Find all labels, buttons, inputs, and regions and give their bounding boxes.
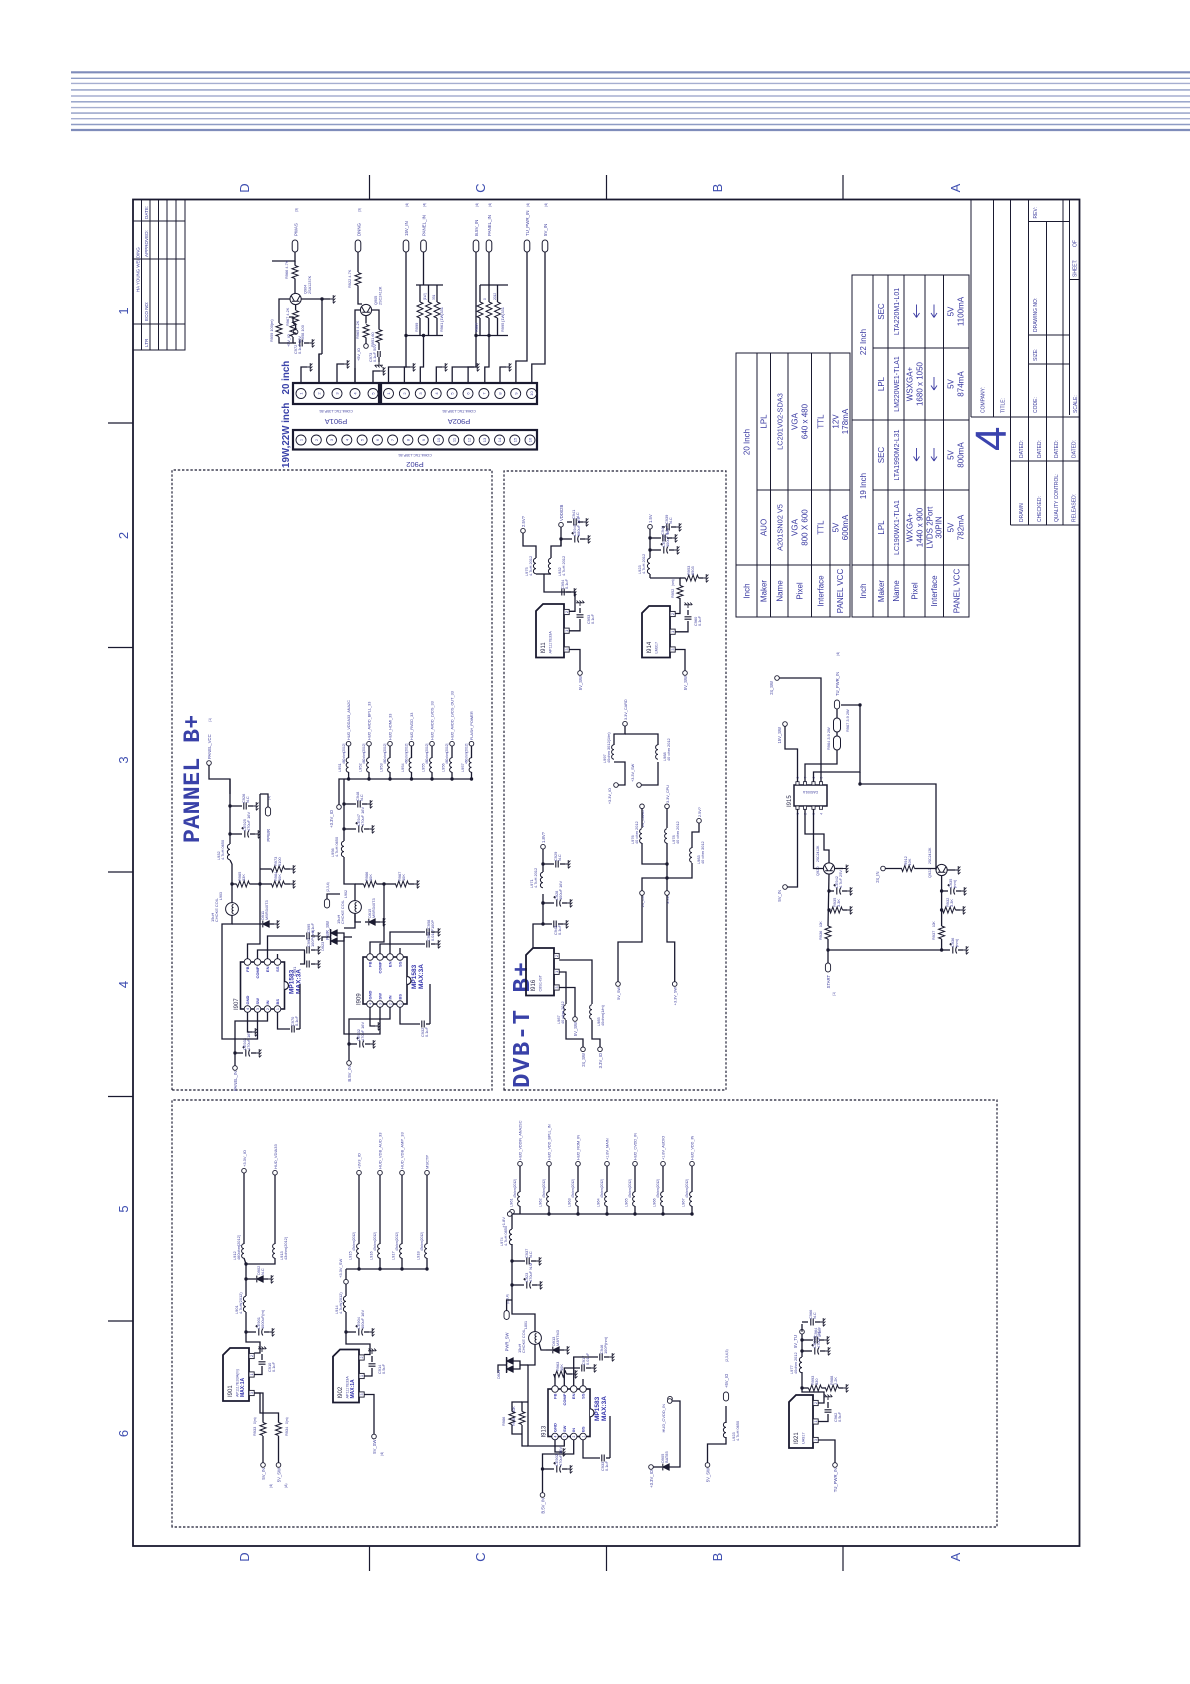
junction	[430, 777, 433, 780]
svg-text:D: D	[237, 1552, 252, 1561]
wire	[254, 1366, 262, 1375]
net tag 15V_SW	[783, 722, 788, 727]
wire	[349, 1043, 357, 1045]
junction	[541, 1467, 544, 1470]
junction	[510, 1283, 513, 1286]
svg-text:AUO: AUO	[760, 519, 769, 536]
svg-text:R937: R937	[931, 931, 936, 940]
svg-text:R936: R936	[818, 931, 823, 940]
junction	[648, 548, 651, 551]
svg-text:2.2K: 2.2K	[833, 1377, 838, 1385]
ground	[315, 946, 320, 954]
svg-text:L917: L917	[391, 1251, 396, 1260]
net tag +3.3V_IO ladder feed	[614, 783, 619, 788]
svg-text:3.3V_CPU: 3.3V_CPU	[666, 785, 670, 803]
svg-text:(4): (4)	[836, 652, 840, 656]
svg-text:LC201V02-SDA3: LC201V02-SDA3	[776, 393, 785, 450]
wire	[246, 1312, 260, 1353]
svg-text:EN: EN	[388, 961, 393, 967]
wire	[579, 608, 581, 613]
svg-text:R987 3.9 2W: R987 3.9 2W	[845, 709, 850, 732]
svg-text:2: 2	[671, 613, 675, 615]
wire	[497, 318, 499, 336]
ground	[571, 588, 576, 596]
inductor L975 4.7uH	[533, 558, 536, 574]
wire	[296, 1028, 300, 1030]
wire	[578, 521, 583, 523]
wire	[420, 336, 423, 384]
svg-text:10K: 10K	[401, 874, 406, 881]
wire	[634, 1206, 636, 1214]
wire	[311, 935, 315, 937]
wire	[318, 354, 320, 383]
dual diode D921	[507, 1366, 513, 1372]
wire	[827, 1402, 829, 1408]
junction	[378, 1267, 381, 1270]
wire	[338, 933, 345, 941]
junction	[474, 334, 477, 337]
svg-text:VDD02B: VDD02B	[559, 505, 564, 521]
svg-text:460ohm[2012]: 460ohm[2012]	[383, 744, 387, 764]
svg-text:5V_SW: 5V_SW	[578, 676, 583, 690]
ground	[591, 1364, 596, 1372]
svg-text:4.7uH 0650: 4.7uH 0650	[220, 839, 225, 860]
junction	[648, 536, 651, 539]
svg-text:IN: IN	[571, 1428, 576, 1432]
wire	[551, 527, 561, 558]
wire	[251, 1052, 256, 1054]
junction	[367, 777, 370, 780]
wire	[606, 1166, 608, 1192]
svg-text:QUALITY CONTROL:: QUALITY CONTROL:	[1054, 473, 1060, 522]
svg-text:0.01uF: 0.01uF	[430, 928, 435, 941]
svg-text:3.3V_IO: 3.3V_IO	[598, 1052, 603, 1068]
wire	[235, 1052, 243, 1054]
net tag 5V_SW for I914	[683, 671, 688, 676]
wire	[270, 923, 275, 925]
svg-text:SW: SW	[255, 998, 260, 1005]
wire	[423, 252, 425, 285]
net tag START	[825, 963, 830, 972]
svg-text:640 x 480: 640 x 480	[801, 403, 810, 439]
ground	[576, 601, 584, 606]
wire	[364, 828, 369, 830]
wire	[346, 1312, 370, 1355]
svg-text:3: 3	[565, 649, 569, 651]
wire	[245, 1264, 247, 1296]
wire	[828, 939, 942, 950]
svg-text:460ohm[2012]: 460ohm[2012]	[236, 1235, 241, 1260]
wire	[389, 746, 391, 758]
resistor R966 4.7K	[292, 266, 298, 279]
wire	[662, 526, 665, 528]
wire	[262, 1436, 264, 1463]
svg-text:1: 1	[276, 1008, 280, 1010]
wire	[346, 1268, 427, 1270]
svg-text:TTL: TTL	[817, 414, 826, 429]
svg-text:L801: L801	[524, 1321, 528, 1329]
wire	[399, 948, 401, 954]
wire	[384, 883, 396, 885]
wire	[675, 598, 680, 614]
resistor R985 33K	[237, 881, 250, 887]
wire	[500, 367, 506, 383]
svg-text:6: 6	[116, 1430, 131, 1437]
svg-text:L963: L963	[567, 1198, 572, 1207]
svg-text:100uF 16V: 100uF 16V	[360, 1310, 365, 1329]
wire	[801, 1334, 803, 1357]
net tag TU_PWR_IN out	[834, 700, 839, 709]
wire	[592, 1020, 600, 1047]
net tag HUD_VDDIN_ANA2SC	[518, 1161, 523, 1166]
wire	[401, 1258, 403, 1269]
svg-text:5V_IN: 5V_IN	[543, 224, 548, 236]
wire	[277, 954, 279, 959]
svg-text:(4): (4)	[269, 1484, 273, 1488]
wire	[560, 863, 565, 865]
svg-text:15V_IN: 15V_IN	[404, 221, 409, 236]
svg-text:+5V_IO: +5V_IO	[724, 1373, 729, 1388]
svg-text:COM4-TAC-L35P-B1: COM4-TAC-L35P-B1	[319, 409, 353, 413]
wire	[260, 883, 272, 885]
svg-text:4: 4	[967, 427, 1016, 451]
wire	[348, 772, 350, 779]
svg-text:(4): (4)	[526, 203, 530, 207]
svg-text:460ohm[2012]: 460ohm[2012]	[425, 744, 429, 764]
wire	[436, 285, 438, 302]
wire	[232, 923, 262, 925]
svg-text:B: B	[710, 184, 725, 193]
wire	[787, 809, 797, 887]
net tag +1.8V	[507, 1212, 512, 1217]
wire	[248, 805, 253, 807]
svg-text:2SA1237K: 2SA1237K	[308, 275, 312, 294]
net tag HUD_CVDD_IN pull	[668, 1396, 673, 1401]
svg-text:SS: SS	[275, 966, 280, 972]
svg-text:N.C: N.C	[260, 1268, 265, 1275]
wire	[278, 1436, 280, 1463]
wire	[311, 949, 315, 951]
wire	[365, 338, 367, 344]
junction	[940, 908, 943, 911]
wire	[650, 578, 680, 586]
ground	[961, 887, 966, 895]
ground	[847, 887, 852, 895]
svg-text:1.5V: 1.5V	[648, 514, 653, 523]
svg-text:0: 0	[483, 298, 487, 300]
svg-text:R984 3.9 2W: R984 3.9 2W	[826, 727, 831, 750]
voltage regulator I916	[526, 948, 554, 996]
junction	[800, 1338, 803, 1341]
svg-text:N.C: N.C	[812, 1312, 817, 1319]
svg-text:Maker: Maker	[877, 580, 886, 603]
wire	[368, 746, 370, 758]
wire	[301, 367, 307, 383]
wire	[827, 939, 829, 963]
svg-text:L902: L902	[344, 890, 348, 898]
net tag 5V_SW for L923	[705, 1463, 710, 1468]
junction	[541, 862, 544, 865]
svg-text:10K: 10K	[277, 874, 282, 881]
svg-text:4.7uF 25V: 4.7uF 25V	[838, 870, 843, 888]
svg-text:0.01uF: 0.01uF	[585, 1352, 590, 1365]
svg-text:HUD_AVDD_LVDS_OUT_33: HUD_AVDD_LVDS_OUT_33	[451, 691, 455, 740]
wire	[708, 1437, 727, 1463]
wire	[835, 868, 844, 870]
wire	[614, 726, 625, 745]
wire	[322, 298, 330, 300]
wire	[675, 650, 685, 671]
svg-text:IN: IN	[265, 1000, 270, 1004]
svg-text:10: 10	[436, 437, 441, 442]
ground	[252, 1028, 257, 1036]
wire	[583, 1440, 600, 1458]
svg-text:13: 13	[482, 437, 487, 442]
wire	[641, 809, 643, 828]
svg-text:40ohm 2012: 40ohm 2012	[793, 1352, 798, 1374]
wire	[814, 809, 824, 868]
wire	[560, 540, 562, 546]
svg-text:8503: 8503	[690, 566, 695, 575]
svg-text:N.C: N.C	[359, 794, 364, 801]
svg-text:40ohm(1/m): 40ohm(1/m)	[600, 1004, 605, 1026]
svg-text:4: 4	[246, 1008, 250, 1010]
resistor R961 331 1W	[434, 302, 440, 318]
inductor L914 4.7uH 2012	[343, 1296, 346, 1312]
svg-text:2SC2412K: 2SC2412K	[928, 847, 932, 864]
junction	[404, 334, 407, 337]
svg-text:5V: 5V	[832, 522, 841, 532]
net tag 24_SW for I915	[775, 676, 780, 681]
svg-text:PANEL VCC: PANEL VCC	[836, 569, 845, 614]
svg-text:19W,22W inch 20 inch: 19W,22W inch 20 inch	[281, 361, 292, 468]
svg-text:LC190WX1-TLA1: LC190WX1-TLA1	[894, 500, 901, 555]
inductor L923b 4.7uH	[647, 558, 650, 574]
svg-text:2: 2	[360, 1357, 364, 1359]
wire	[519, 1206, 521, 1214]
wire	[543, 1468, 555, 1470]
wire	[560, 526, 562, 528]
choke coil L903 15uH	[226, 903, 239, 916]
svg-text:3: 3	[814, 1439, 818, 1441]
wire	[451, 772, 453, 779]
ground	[369, 1328, 374, 1336]
wire	[558, 983, 560, 985]
wire	[667, 895, 675, 981]
svg-text:24_IN: 24_IN	[875, 872, 880, 883]
ground	[274, 920, 279, 928]
ground	[963, 946, 968, 954]
svg-text:UA917: UA917	[802, 1432, 806, 1444]
svg-text:MBR340T3: MBR340T3	[371, 898, 376, 918]
net tag HUD_HDMI_33	[388, 741, 393, 746]
wire	[357, 252, 359, 272]
net tag PPWR	[265, 807, 270, 816]
svg-text:(4): (4)	[544, 203, 548, 207]
svg-text:43ohm(2012): 43ohm(2012)	[571, 1179, 575, 1198]
resistor R986b 10K	[509, 1412, 515, 1425]
wire	[675, 621, 688, 632]
wire	[289, 317, 293, 323]
wire	[264, 1278, 269, 1280]
svg-text:TITLE:: TITLE:	[1001, 398, 1007, 413]
wire	[295, 324, 297, 330]
svg-text:AP1117E33A: AP1117E33A	[549, 631, 553, 654]
svg-text:DATED:: DATED:	[1037, 440, 1043, 458]
svg-text:43ohm(2012): 43ohm(2012)	[685, 1179, 689, 1198]
svg-text:FB: FB	[553, 1393, 558, 1398]
svg-text:0(m): 0(m)	[285, 1417, 289, 1424]
svg-text:5V_SW: 5V_SW	[683, 676, 688, 690]
svg-text:1: 1	[250, 1374, 254, 1376]
svg-text:+3.3V_SW: +3.3V_SW	[631, 763, 635, 782]
svg-text:470uF 16V: 470uF 16V	[558, 1447, 563, 1466]
svg-text:BS: BS	[581, 1426, 586, 1432]
wire	[725, 1406, 727, 1423]
connector P902A	[381, 383, 537, 404]
wire	[822, 1387, 827, 1389]
svg-text:L915: L915	[348, 1251, 353, 1260]
wire	[691, 1166, 693, 1192]
wire	[805, 809, 829, 863]
svg-text:MP1583: MP1583	[411, 964, 418, 989]
ground	[330, 295, 335, 303]
ground	[563, 920, 568, 928]
svg-text:470uF 16V: 470uF 16V	[246, 1031, 251, 1050]
svg-text:L962: L962	[538, 1198, 543, 1207]
wire	[268, 936, 306, 959]
net tag PWR_SW for I913	[504, 1311, 509, 1320]
svg-text:1: 1	[814, 1421, 818, 1423]
wire	[564, 1368, 580, 1386]
svg-text:+3.3V_IO: +3.3V_IO	[329, 809, 334, 828]
ground	[435, 928, 440, 936]
svg-text:470uF 16V: 470uF 16V	[360, 807, 365, 826]
ground	[672, 534, 677, 542]
svg-text:5V_TU: 5V_TU	[793, 1335, 798, 1348]
wire	[546, 1349, 552, 1351]
wire	[512, 1425, 522, 1434]
wire	[532, 1284, 537, 1286]
wire	[389, 772, 391, 779]
wire	[345, 1269, 347, 1280]
wire	[311, 963, 315, 965]
inductor L932b 4.7uH	[548, 558, 551, 574]
net tag 3.3V_CPU	[665, 804, 670, 809]
resistor R951 60	[376, 330, 382, 343]
svg-text:4.7uH 2012: 4.7uH 2012	[641, 554, 646, 574]
wire	[531, 1260, 536, 1262]
ground	[567, 899, 572, 907]
wire	[258, 950, 306, 959]
wire	[231, 864, 233, 903]
svg-text:100P(nm): 100P(nm)	[603, 1336, 608, 1354]
wire	[671, 526, 676, 528]
svg-text:DNNG: DNNG	[357, 222, 362, 236]
svg-text:P901A: P901A	[325, 417, 348, 426]
svg-text:19 Inch: 19 Inch	[859, 473, 868, 499]
wire	[488, 285, 490, 302]
wire	[666, 809, 668, 828]
ground	[537, 1281, 542, 1289]
resistor R936 10K	[825, 926, 831, 939]
junction	[230, 882, 233, 885]
svg-text:3.3K: 3.3K	[949, 899, 954, 907]
ground	[307, 363, 312, 371]
ground	[269, 1328, 274, 1336]
junction	[347, 777, 350, 780]
svg-text:BAT85: BAT85	[664, 1451, 669, 1463]
net tag HUD_RVDD_33	[409, 741, 414, 746]
svg-text:I915: I915	[787, 795, 793, 807]
svg-text:0.1uF 50V: 0.1uF 50V	[297, 336, 302, 354]
svg-text:LPL: LPL	[877, 520, 886, 535]
svg-text:SS: SS	[398, 961, 403, 967]
svg-text:5100: 5100	[277, 857, 282, 866]
svg-text:I909: I909	[357, 993, 363, 1005]
wire	[322, 937, 331, 941]
wire	[574, 1357, 598, 1386]
svg-text:HUD_VDDA33_ANA2C: HUD_VDDA33_ANA2C	[347, 700, 351, 740]
wire	[337, 364, 344, 383]
wire	[532, 252, 545, 383]
svg-text:PANEL_IN: PANEL_IN	[233, 1071, 238, 1091]
wire	[839, 1387, 844, 1389]
resistor R922 4.7K	[355, 273, 361, 286]
net tag VDD02B	[559, 522, 564, 527]
resistor R995 331 1W	[495, 302, 501, 318]
svg-text:(4): (4)	[475, 203, 479, 207]
ground	[315, 960, 320, 968]
svg-text:M3RTM3: M3RTM3	[555, 1330, 560, 1346]
tag +5V_IO	[293, 330, 298, 335]
ground	[309, 339, 314, 347]
title block	[971, 200, 1080, 526]
svg-text:HUD_VDD_IN: HUD_VDD_IN	[691, 1135, 695, 1160]
net tag 5V_SW for I901	[276, 1463, 281, 1468]
svg-text:HUD_HDMI_33: HUD_HDMI_33	[389, 714, 393, 740]
wire	[604, 1356, 609, 1358]
svg-text:CHOKE COIL: CHOKE COIL	[340, 899, 345, 924]
wire	[254, 1393, 278, 1423]
svg-text:A201SN02 V5: A201SN02 V5	[776, 504, 785, 551]
junction	[388, 777, 391, 780]
svg-text:2: 2	[565, 611, 569, 613]
svg-text:(2,3,4): (2,3,4)	[326, 882, 330, 892]
net tag +3.3V_SW ladder2	[672, 982, 677, 987]
wire	[355, 883, 364, 885]
wire	[625, 734, 658, 745]
resistor R997	[477, 302, 483, 318]
wire	[411, 772, 413, 779]
wire	[915, 868, 937, 870]
net tag +3V3_IO	[357, 1170, 362, 1175]
wire	[577, 1166, 579, 1192]
svg-text:4.7uH(2012): 4.7uH(2012)	[238, 1292, 243, 1314]
wire	[669, 549, 674, 551]
svg-text:2: 2	[814, 1402, 818, 1404]
resistor R937 10K	[939, 926, 945, 939]
wire	[567, 521, 572, 523]
svg-text:0.5uF: 0.5uF	[381, 1363, 386, 1374]
op-amp U I913 MP1583 regulator	[548, 1386, 594, 1440]
wire	[554, 1374, 556, 1386]
wire	[364, 1368, 372, 1376]
svg-text:10K: 10K	[368, 874, 373, 881]
capacitor C970 0.1uF	[292, 1026, 294, 1033]
resistor R988 2.2K	[826, 1385, 839, 1391]
svg-text:874mA: 874mA	[957, 371, 966, 397]
